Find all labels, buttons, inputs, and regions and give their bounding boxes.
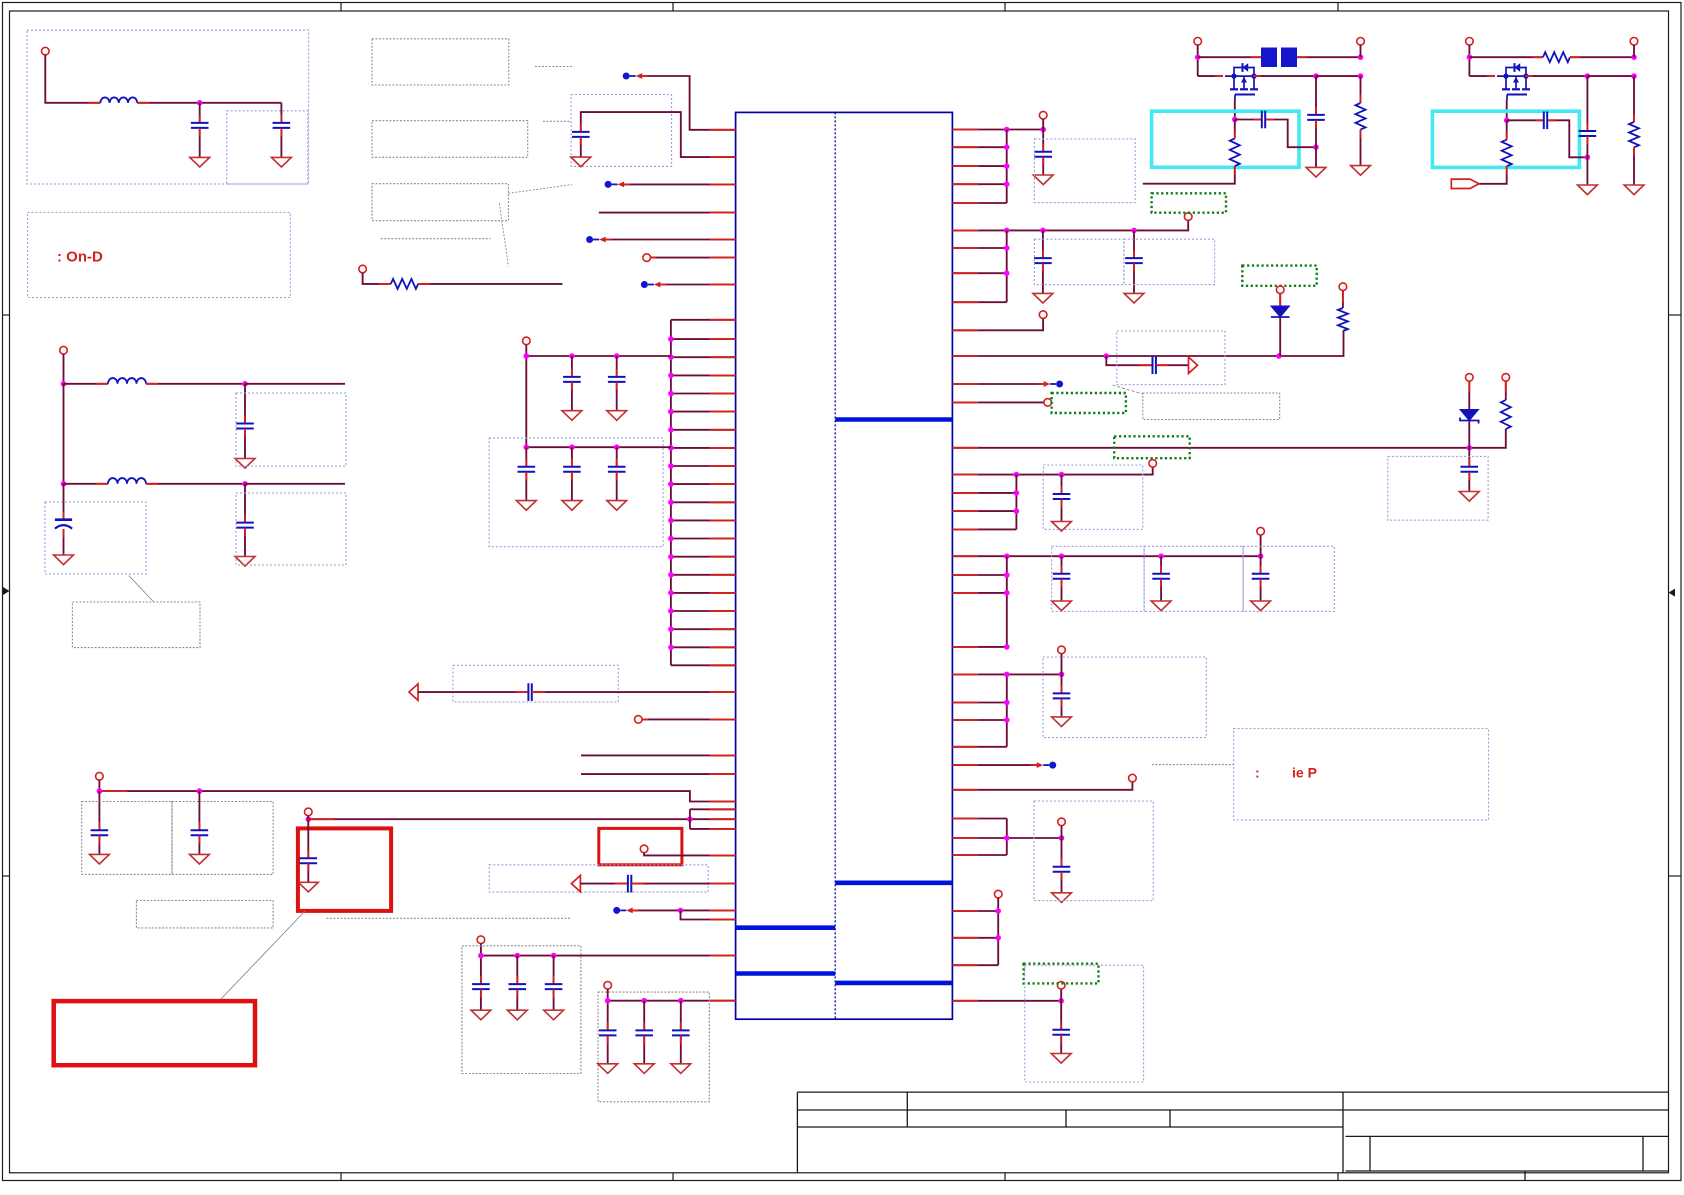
svg-text::: : bbox=[1255, 765, 1260, 781]
svg-text:ie P: ie P bbox=[1292, 765, 1317, 781]
svg-text:: On-D: : On-D bbox=[57, 249, 103, 266]
